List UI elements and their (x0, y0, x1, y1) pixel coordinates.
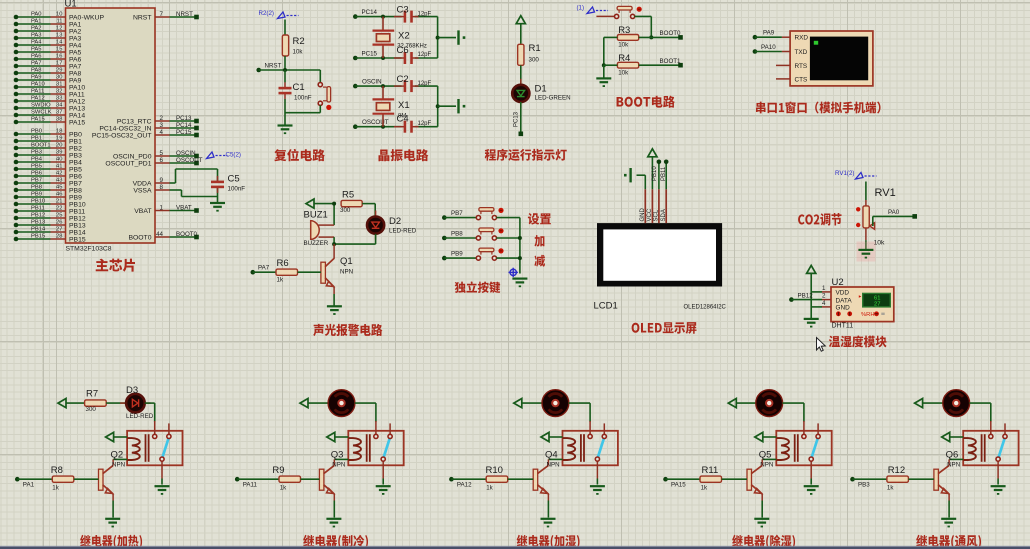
node PB3 terminal (850, 477, 855, 482)
wire reset button bottom to C1 bottom node (285, 105, 320, 113)
svg-text:PA13: PA13 (69, 105, 85, 112)
svg-text:PB3: PB3 (31, 150, 42, 156)
svg-text:PC13_RTC: PC13_RTC (117, 118, 152, 125)
transistor Q2 (NPN) (99, 465, 114, 494)
motor FAN relay2 (328, 390, 355, 417)
svg-text:40: 40 (56, 157, 62, 163)
wire R6 to Q1 base (298, 271, 321, 273)
svg-text:PB14: PB14 (69, 229, 86, 236)
pin relay5 contact (997, 465, 999, 478)
svg-text:25: 25 (56, 213, 62, 219)
pin U2 VDD stub (822, 291, 831, 293)
pin OLED GND (640, 189, 646, 223)
motor FAN relay5 (943, 390, 970, 417)
svg-text:NPN: NPN (547, 462, 560, 469)
svg-text:PB5: PB5 (69, 166, 82, 173)
transistor Q6 (NPN) (934, 465, 949, 494)
svg-text:NPN: NPN (340, 269, 353, 276)
wire PB7 to key (444, 217, 476, 219)
net label PB7 (451, 210, 463, 217)
ground below RV1 (858, 250, 873, 259)
wire PA10 to TXD (755, 51, 782, 53)
svg-text:12pF: 12pF (418, 52, 432, 58)
svg-text:BUZ1: BUZ1 (304, 210, 328, 221)
wire bus to ground X1 (438, 105, 456, 107)
pin RV1 bottom (865, 228, 867, 240)
net label PA7 (258, 265, 270, 272)
svg-text:SDA: SDA (661, 209, 667, 221)
svg-text:PA14: PA14 (69, 112, 85, 119)
svg-text:32.768KHz: 32.768KHz (397, 44, 427, 50)
wire key PB9 to bus (496, 257, 520, 259)
resistor R12 (887, 476, 909, 482)
svg-text:OSCOUT: OSCOUT (176, 157, 203, 164)
svg-text:VBAT: VBAT (176, 204, 192, 211)
svg-text:STM32F103C8: STM32F103C8 (66, 246, 112, 253)
svg-text:11: 11 (56, 19, 62, 25)
svg-text:VBAT: VBAT (134, 208, 151, 215)
pin Q4 collector (547, 459, 549, 465)
svg-text:1k: 1k (280, 485, 287, 492)
svg-text:300: 300 (529, 57, 540, 64)
svg-text:Q6: Q6 (946, 449, 959, 460)
wire relay5 contact to ground (997, 479, 999, 485)
capacitor C2 labels (397, 74, 432, 87)
svg-text:PA10: PA10 (761, 44, 776, 51)
net label PB9 (451, 250, 463, 257)
junction power/R5 (332, 202, 336, 206)
virtual terminal pin labels (795, 35, 809, 84)
capacitor C4 (394, 121, 419, 133)
ground below Q1 (327, 306, 342, 315)
svg-text:DHT11: DHT11 (832, 323, 854, 330)
resistor R3 (617, 35, 638, 41)
pin Q5 collector (761, 459, 763, 465)
svg-text:R2(2): R2(2) (259, 10, 274, 17)
pin Q6 emitter (948, 494, 950, 501)
node PC14 terminal (353, 14, 358, 19)
resistor R7 labels (86, 388, 99, 413)
ground (sideways) X1 bus (459, 99, 466, 113)
power symbol alarm (306, 199, 314, 208)
svg-text:PB9: PB9 (69, 194, 82, 201)
svg-text:PA6: PA6 (31, 54, 42, 60)
virtual terminal screen (810, 37, 868, 81)
power symbol relay1 coil (106, 432, 114, 441)
wire motor3 to relay pin (569, 403, 591, 422)
chip U1 right pins NRST PC13 PC14 PC15 OSCIN OSCOUT VBAT BOOT0 with terminals (92, 11, 203, 242)
svg-text:PA15: PA15 (31, 117, 45, 123)
caption 设置 (528, 213, 551, 225)
svg-text:PB11: PB11 (661, 166, 667, 181)
wire power to motor3 (522, 402, 542, 404)
wire power to motor4 (736, 402, 756, 404)
node PB8 terminal (442, 236, 447, 241)
pin Q5 emitter (761, 494, 763, 501)
wire button left stub (596, 15, 614, 17)
svg-text:PC15: PC15 (362, 50, 378, 57)
wire coil arrow stub3 (549, 436, 563, 438)
svg-text:8: 8 (160, 184, 164, 191)
net label PA12 (457, 482, 472, 489)
svg-text:PB15: PB15 (31, 234, 45, 240)
pin U2 DATA stub (822, 299, 831, 301)
wire coil arrow stub1 (114, 436, 128, 438)
ground relay3 contact (590, 486, 605, 495)
svg-text:PB13: PB13 (31, 220, 45, 226)
svg-text:12pF: 12pF (418, 12, 432, 18)
svg-text:300: 300 (86, 406, 97, 413)
svg-text:OSCOUT_PD1: OSCOUT_PD1 (105, 160, 151, 167)
chip U1 VSSA pin 8 (133, 184, 169, 195)
caption 复位电路 (274, 149, 325, 161)
svg-text:PB10: PB10 (69, 201, 86, 208)
ground keys bus (512, 279, 527, 288)
pin OLED SCL (654, 189, 660, 223)
wire PA1 to R8 (17, 478, 52, 480)
transistor Q4 (NPN) (533, 465, 548, 494)
power symbol relay2 coil (327, 432, 335, 441)
node PB12 terminal (789, 297, 794, 302)
svg-text:1: 1 (822, 285, 826, 292)
svg-text:NPN: NPN (112, 462, 125, 469)
wire bus to ground X2 (438, 37, 456, 39)
wire keys bus (519, 218, 521, 274)
svg-text:8M: 8M (398, 113, 406, 119)
OLED LCD1 designator (594, 301, 618, 312)
svg-text:PC13: PC13 (176, 115, 192, 122)
net label OSCIN (362, 79, 382, 86)
svg-text:R12: R12 (888, 465, 905, 476)
wire R3 left to vertical rail (604, 37, 618, 65)
push-button RESET (vertical) (318, 83, 331, 111)
svg-text:PA3: PA3 (69, 35, 82, 42)
svg-text:46: 46 (56, 192, 62, 198)
wire crystal right bus upper (437, 17, 439, 58)
wire OSCOUT row (355, 126, 437, 128)
LED D2 (LED-RED) (367, 211, 384, 240)
wire key PB8 to bus (496, 237, 520, 239)
resistor R8 labels (51, 465, 63, 492)
ground relay5 contact (991, 486, 1006, 495)
svg-text:PA12: PA12 (69, 98, 85, 105)
svg-text:PA6: PA6 (69, 56, 82, 63)
potentiometer RV1 wiper arrow (870, 223, 875, 229)
svg-text:PA11: PA11 (243, 482, 258, 489)
caption BOOT电路 (617, 96, 675, 108)
svg-text:20: 20 (56, 143, 62, 149)
blue net annotation RV1(2) (835, 170, 877, 179)
wire RV1 bottom to ground (865, 240, 867, 249)
svg-text:D1: D1 (535, 84, 547, 95)
pin RTS stub (776, 64, 790, 66)
svg-text:X2: X2 (398, 31, 410, 42)
node PB7 terminal (442, 215, 447, 220)
transistor Q1 labels (340, 256, 353, 276)
svg-text:7: 7 (160, 11, 164, 18)
power symbol relay4 load (728, 399, 736, 408)
svg-text:PB14: PB14 (31, 227, 46, 233)
svg-text:PA10: PA10 (69, 84, 85, 91)
svg-text:PC15-OSC32_OUT: PC15-OSC32_OUT (92, 132, 152, 139)
wire power to R2 top (284, 20, 286, 36)
svg-text:PA10: PA10 (31, 82, 45, 88)
svg-text:PC14: PC14 (362, 9, 378, 16)
wire NRST node to C1 top (284, 70, 286, 82)
wire OSCIN row (355, 85, 437, 87)
svg-text:C1: C1 (293, 82, 305, 93)
svg-text:PB0: PB0 (69, 131, 82, 138)
node PA0 terminal (912, 214, 917, 219)
svg-text:Q2: Q2 (111, 449, 124, 460)
wire R9 to Q3 base (301, 478, 320, 480)
caption 串口1窗口（模拟手机端） (756, 101, 881, 113)
RV1 value 10k (874, 240, 886, 247)
chip U1 left port pins PA0-PA15 and PB0-PB15 with pin numbers (14, 12, 105, 244)
svg-text:VDD: VDD (836, 290, 850, 297)
pin Q2 collector (112, 459, 114, 465)
svg-text:PB12: PB12 (798, 292, 814, 299)
net label PA15 (671, 482, 686, 489)
net label PA11 (243, 482, 258, 489)
DHT11 display digits (874, 295, 880, 307)
svg-text:PA15: PA15 (671, 482, 686, 489)
pin number 2 (DATA) (822, 293, 826, 300)
svg-text:PB8: PB8 (31, 185, 42, 191)
node NRST terminal dot (256, 68, 261, 73)
wire PB3 to R12 (853, 478, 887, 480)
OLED LCD1 screen (603, 229, 716, 280)
ground relay2 contact (376, 486, 391, 495)
DHT11 display (863, 293, 891, 307)
svg-text:12: 12 (56, 26, 62, 32)
U2 pin labels (836, 290, 853, 312)
svg-text:PA4: PA4 (69, 42, 82, 49)
ground below Q2 (105, 519, 120, 528)
svg-text:38: 38 (56, 117, 62, 123)
net label PA9 (763, 30, 775, 37)
node OSCIN terminal (353, 84, 358, 89)
svg-text:PA0: PA0 (888, 209, 900, 216)
virtual terminal body (790, 31, 873, 86)
svg-text:PB0: PB0 (31, 129, 42, 135)
wire motor2 to relay pin (355, 403, 376, 422)
caption 程序运行指示灯 (485, 149, 567, 161)
pin U2 GND stub (822, 306, 831, 308)
net label PB11 (rotated) (661, 166, 667, 181)
svg-text:BOOT0: BOOT0 (128, 234, 151, 241)
potentiometer RV1 body (863, 206, 869, 228)
svg-text:Q3: Q3 (331, 449, 344, 460)
svg-text:1k: 1k (701, 485, 708, 492)
svg-text:PB2: PB2 (69, 145, 82, 152)
svg-text:4: 4 (160, 129, 164, 136)
wire NRST to reset button top (319, 70, 321, 83)
resistor R1 labels (529, 43, 541, 64)
LED D2 labels (389, 216, 417, 235)
svg-text:PA7: PA7 (69, 63, 82, 70)
svg-text:PA15: PA15 (69, 119, 85, 126)
svg-text:PA11: PA11 (69, 91, 85, 98)
svg-text:1k: 1k (486, 485, 493, 492)
wire crystal right bus lower (437, 86, 439, 127)
DHT11 display arrow (859, 295, 862, 298)
buzzer BUZ1 (311, 221, 320, 240)
node BOOT1 terminal (678, 63, 683, 68)
resistor R5 (341, 200, 362, 206)
ground below C5 (210, 203, 225, 212)
svg-text:OSCIN: OSCIN (176, 150, 196, 157)
net label PA10 (761, 44, 776, 51)
caption 减 (534, 255, 545, 267)
svg-text:U2: U2 (832, 277, 844, 288)
junction PC14/X2 (381, 15, 385, 19)
svg-text:PB6: PB6 (69, 173, 82, 180)
wire emitter4 to ground (761, 501, 763, 518)
svg-text:NRST: NRST (176, 11, 193, 18)
resistor R5 labels (340, 190, 354, 214)
svg-text:R3: R3 (618, 25, 630, 36)
svg-text:27: 27 (56, 227, 62, 233)
wire emitter1 to ground (112, 501, 114, 518)
svg-text:14: 14 (56, 40, 63, 46)
caption 声光报警电路 (313, 324, 382, 336)
ground (sideways) X2 bus (459, 30, 466, 44)
resistor R6 labels (277, 258, 289, 284)
svg-text:100nF: 100nF (294, 95, 312, 102)
node PA9 terminal (753, 35, 758, 40)
pin number 4 (GND) (822, 300, 826, 307)
resistor R3 labels (618, 25, 630, 48)
svg-text:PA1: PA1 (69, 21, 82, 28)
ground below Q5 (754, 519, 769, 528)
pin Q3 collector (333, 459, 335, 465)
wire NRST horizontal (259, 69, 321, 71)
svg-text:41: 41 (56, 164, 62, 170)
svg-text:PB9: PB9 (31, 192, 42, 198)
junction PC15/X2 (381, 56, 385, 60)
net label OSCOUT (362, 119, 389, 126)
crystal X2 (373, 17, 395, 58)
U2 designator (832, 277, 844, 288)
node PA7 terminal (251, 270, 256, 275)
DHT11 U2 body (831, 287, 894, 322)
wire R2 bottom to NRST node (284, 56, 286, 70)
svg-text:PC15: PC15 (176, 129, 192, 136)
resistor R1 (518, 44, 524, 65)
wire coil arrow stub5 (950, 436, 964, 438)
svg-text:PA2: PA2 (69, 28, 82, 35)
pin CTS stub (776, 78, 790, 80)
wire R8 to Q2 base (74, 478, 99, 480)
relay RL5 (963, 421, 1018, 465)
wire OLED SCL (658, 162, 660, 189)
ground (sideways) OLED (624, 168, 631, 182)
svg-text:PA0-WKUP: PA0-WKUP (69, 14, 104, 21)
pin Q4 emitter (547, 494, 549, 501)
pin Q6 collector (948, 459, 950, 465)
wire PB9 to key (444, 257, 476, 259)
pin TXD stub (782, 51, 790, 53)
wire PC15 row (355, 57, 437, 59)
svg-text:PA1: PA1 (31, 19, 42, 25)
mouse cursor (817, 338, 826, 352)
wire relay2 contact to ground (382, 479, 384, 485)
svg-text:1k: 1k (52, 485, 59, 492)
wire PA9 to RXD (755, 36, 782, 38)
node PA11 terminal (235, 477, 240, 482)
power symbol above R1 (516, 16, 525, 24)
svg-text:17: 17 (56, 61, 62, 67)
svg-text:U1: U1 (65, 0, 77, 10)
svg-text:PB4: PB4 (69, 159, 82, 166)
LED D1 labels (535, 84, 571, 102)
svg-text:PB8: PB8 (451, 230, 463, 237)
resistor R11 labels (701, 465, 719, 492)
wire GND row (811, 306, 822, 308)
blue net annotation R2(2) (259, 10, 299, 19)
svg-text:45: 45 (56, 185, 62, 191)
net label PA0 (RV1) (888, 209, 900, 216)
svg-text:PA12: PA12 (457, 482, 472, 489)
node OSCOUT terminal (353, 124, 358, 129)
junction at R2/C1/NRST (283, 68, 287, 72)
power symbol relay5 load (915, 399, 923, 408)
node PC15 terminal (353, 56, 358, 61)
svg-text:BOOT1: BOOT1 (31, 143, 51, 149)
node SDA terminal dot (664, 160, 669, 165)
ground BOOT rail (596, 78, 611, 87)
resistor R8 (52, 476, 74, 482)
resistor R10 (486, 476, 508, 482)
svg-text:PA5: PA5 (69, 49, 82, 56)
svg-text:PB13: PB13 (69, 222, 86, 229)
LED D3 (LED-RED) (120, 394, 151, 413)
svg-text:1: 1 (160, 204, 164, 211)
junction BOOT0 node (649, 35, 653, 39)
wire C1 bottom to ground (284, 99, 286, 126)
svg-text:PB5: PB5 (31, 164, 42, 170)
ground relay1 contact (155, 486, 170, 495)
svg-text:%RH: %RH (861, 312, 875, 318)
resistor R4 labels (618, 53, 630, 76)
capacitor C4 labels (397, 114, 432, 128)
svg-text:OSCIN: OSCIN (362, 79, 382, 86)
net label PB12 (798, 292, 814, 299)
net label PC15 (362, 50, 378, 57)
pin Q2 emitter (112, 494, 114, 501)
svg-text:PB12: PB12 (69, 215, 86, 222)
OLED LCD1 frame (597, 223, 722, 286)
wire RV1 top (865, 182, 867, 201)
power symbol relay3 load (514, 399, 522, 408)
caption 温湿度模块 (829, 335, 887, 347)
wire coil to Q2 collector (113, 458, 127, 460)
svg-text:GND: GND (836, 305, 851, 312)
svg-text:21: 21 (56, 199, 62, 205)
svg-text:NPN: NPN (760, 462, 773, 469)
svg-text:BOOT1: BOOT1 (660, 58, 682, 65)
svg-text:16: 16 (56, 54, 62, 60)
wire PA15 to R11 (666, 478, 701, 480)
svg-text:SWCLK: SWCLK (31, 110, 52, 116)
resistor R9 labels (272, 465, 287, 492)
wire R7 to D3 (106, 402, 127, 404)
svg-text:PB11: PB11 (31, 206, 45, 212)
power symbol relay1 load (58, 399, 66, 408)
svg-text:PA7: PA7 (31, 61, 42, 67)
power symbol DHT11 (807, 265, 816, 273)
